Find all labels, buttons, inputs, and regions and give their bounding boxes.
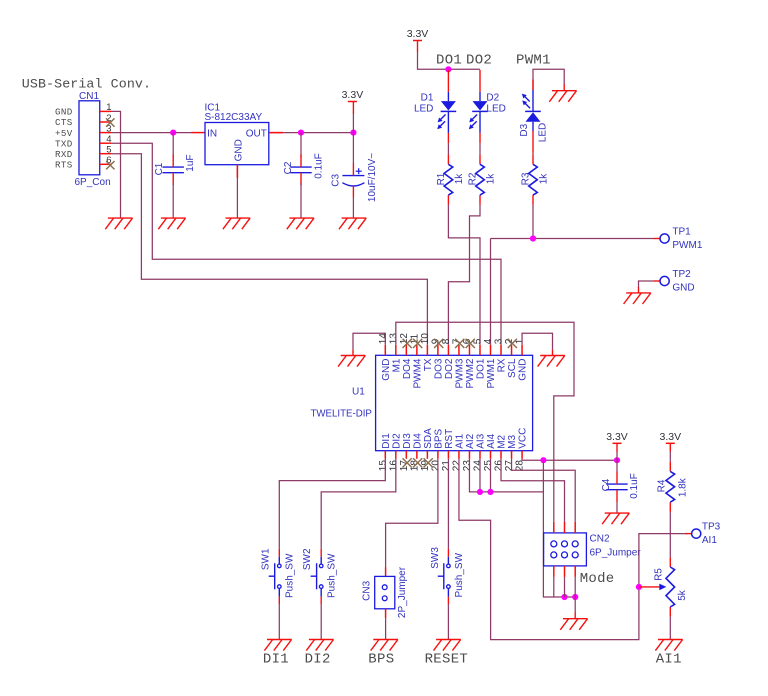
svg-text:10: 10 bbox=[420, 333, 431, 345]
svg-text:28: 28 bbox=[515, 460, 526, 472]
svg-text:D2: D2 bbox=[486, 93, 499, 104]
svg-text:3.3V: 3.3V bbox=[606, 431, 628, 443]
svg-text:16: 16 bbox=[388, 460, 399, 472]
svg-text:23: 23 bbox=[462, 460, 473, 472]
svg-text:1k: 1k bbox=[485, 173, 496, 185]
svg-text:TWELITE-DIP: TWELITE-DIP bbox=[311, 409, 372, 420]
svg-text:15: 15 bbox=[378, 460, 389, 472]
svg-text:GND: GND bbox=[672, 282, 694, 293]
svg-text:RXD: RXD bbox=[55, 149, 73, 160]
svg-text:R1: R1 bbox=[436, 172, 447, 185]
svg-text:D1: D1 bbox=[421, 93, 434, 104]
svg-text:LED: LED bbox=[414, 104, 433, 115]
svg-text:SW2: SW2 bbox=[302, 548, 313, 570]
svg-text:14: 14 bbox=[378, 333, 389, 345]
svg-text:C1: C1 bbox=[154, 162, 165, 175]
svg-text:M1: M1 bbox=[391, 358, 402, 372]
svg-text:C2: C2 bbox=[283, 161, 294, 174]
svg-text:DO1: DO1 bbox=[476, 358, 487, 379]
svg-text:DI3: DI3 bbox=[402, 433, 413, 449]
svg-text:0.1uF: 0.1uF bbox=[629, 473, 640, 499]
svg-text:CN2: CN2 bbox=[590, 533, 610, 544]
svg-text:AI4: AI4 bbox=[486, 433, 497, 448]
svg-text:Mode: Mode bbox=[580, 571, 615, 587]
svg-text:IN: IN bbox=[207, 129, 217, 140]
svg-text:R5: R5 bbox=[653, 568, 664, 581]
svg-text:DO2: DO2 bbox=[466, 53, 492, 69]
svg-text:AI3: AI3 bbox=[476, 433, 487, 448]
svg-text:SW1: SW1 bbox=[260, 548, 271, 570]
svg-text:D3: D3 bbox=[519, 123, 530, 136]
svg-text:5: 5 bbox=[106, 145, 111, 156]
svg-text:RESET: RESET bbox=[425, 651, 469, 667]
svg-text:DI2: DI2 bbox=[305, 651, 331, 667]
svg-text:DO2: DO2 bbox=[444, 358, 455, 379]
svg-text:DI1: DI1 bbox=[263, 651, 289, 667]
svg-text:R3: R3 bbox=[521, 172, 532, 185]
svg-text:AI2: AI2 bbox=[465, 433, 476, 448]
svg-text:LED: LED bbox=[486, 104, 505, 115]
svg-text:RST: RST bbox=[444, 429, 455, 449]
svg-text:10uF/10V~: 10uF/10V~ bbox=[367, 153, 378, 202]
svg-text:M3: M3 bbox=[507, 434, 518, 448]
svg-text:DI1: DI1 bbox=[381, 433, 392, 449]
svg-text:TP1: TP1 bbox=[672, 226, 691, 237]
svg-text:BPS: BPS bbox=[434, 428, 445, 448]
svg-text:S-812C33AY: S-812C33AY bbox=[205, 112, 263, 123]
svg-text:SCL: SCL bbox=[507, 358, 518, 378]
svg-text:RX: RX bbox=[497, 358, 508, 372]
svg-text:RTS: RTS bbox=[55, 160, 73, 171]
svg-text:DO1: DO1 bbox=[436, 53, 462, 69]
svg-text:USB-Serial Conv.: USB-Serial Conv. bbox=[22, 76, 151, 91]
svg-text:6P_Jumper: 6P_Jumper bbox=[590, 548, 642, 559]
svg-text:1k: 1k bbox=[454, 173, 465, 185]
svg-text:U1: U1 bbox=[352, 387, 365, 398]
svg-text:AI1: AI1 bbox=[656, 651, 682, 667]
svg-text:0.1uF: 0.1uF bbox=[313, 153, 324, 179]
svg-text:R2: R2 bbox=[468, 172, 479, 185]
svg-text:3.3V: 3.3V bbox=[342, 89, 364, 101]
svg-text:Push_SW: Push_SW bbox=[454, 552, 465, 597]
svg-text:21: 21 bbox=[441, 460, 452, 472]
svg-text:CN3: CN3 bbox=[362, 580, 373, 600]
svg-text:26: 26 bbox=[494, 460, 505, 472]
svg-text:PWM1: PWM1 bbox=[516, 53, 551, 69]
svg-text:DO4: DO4 bbox=[402, 358, 413, 379]
svg-text:DI2: DI2 bbox=[391, 433, 402, 449]
svg-text:GND: GND bbox=[234, 139, 245, 161]
svg-text:2P_Jumper: 2P_Jumper bbox=[397, 566, 408, 618]
svg-text:3.3V: 3.3V bbox=[659, 431, 681, 443]
svg-text:5k: 5k bbox=[677, 589, 688, 601]
svg-text:TP2: TP2 bbox=[672, 269, 691, 280]
svg-text:VCC: VCC bbox=[518, 428, 529, 449]
svg-text:M2: M2 bbox=[497, 434, 508, 448]
svg-text:DO3: DO3 bbox=[434, 358, 445, 379]
svg-text:Push_SW: Push_SW bbox=[284, 553, 295, 598]
svg-text:1: 1 bbox=[106, 102, 111, 113]
svg-text:27: 27 bbox=[504, 460, 515, 472]
svg-text:1.8k: 1.8k bbox=[677, 477, 688, 497]
svg-text:PWM4: PWM4 bbox=[412, 358, 423, 388]
svg-text:GND: GND bbox=[518, 359, 529, 381]
svg-text:AI1: AI1 bbox=[702, 535, 717, 546]
svg-text:TXD: TXD bbox=[55, 138, 73, 149]
svg-text:6P_Con: 6P_Con bbox=[75, 177, 111, 188]
svg-text:PWM3: PWM3 bbox=[455, 358, 466, 388]
svg-text:TP3: TP3 bbox=[702, 521, 721, 532]
svg-text:TX: TX bbox=[423, 358, 434, 371]
svg-text:AI1: AI1 bbox=[455, 433, 466, 448]
svg-text:PWM1: PWM1 bbox=[486, 358, 497, 388]
svg-text:3.3V: 3.3V bbox=[407, 28, 429, 40]
svg-text:22: 22 bbox=[452, 460, 463, 472]
svg-text:C4: C4 bbox=[601, 478, 612, 491]
svg-text:GND: GND bbox=[55, 107, 73, 118]
svg-text:OUT: OUT bbox=[246, 129, 267, 140]
svg-text:R4: R4 bbox=[657, 479, 668, 492]
svg-text:13: 13 bbox=[388, 333, 399, 345]
svg-text:LED: LED bbox=[537, 123, 548, 142]
svg-text:4: 4 bbox=[483, 338, 494, 344]
svg-text:SW3: SW3 bbox=[430, 547, 441, 569]
svg-text:CTS: CTS bbox=[55, 117, 73, 128]
svg-text:PWM1: PWM1 bbox=[672, 240, 702, 251]
svg-text:SDA: SDA bbox=[423, 428, 434, 449]
svg-text:4: 4 bbox=[106, 134, 111, 145]
svg-text:BPS: BPS bbox=[368, 651, 394, 667]
svg-text:DI4: DI4 bbox=[412, 433, 423, 449]
svg-text:PWM2: PWM2 bbox=[465, 358, 476, 388]
svg-text:20: 20 bbox=[431, 460, 442, 472]
svg-text:C3: C3 bbox=[331, 173, 342, 186]
svg-text:1uF: 1uF bbox=[185, 154, 196, 171]
svg-text:CN1: CN1 bbox=[79, 91, 99, 102]
svg-text:3: 3 bbox=[494, 338, 505, 344]
svg-text:1k: 1k bbox=[538, 173, 549, 185]
svg-text:Push_SW: Push_SW bbox=[326, 553, 337, 598]
svg-text:24: 24 bbox=[473, 460, 484, 472]
svg-text:GND: GND bbox=[381, 359, 392, 381]
svg-text:+5V: +5V bbox=[55, 128, 73, 139]
svg-text:25: 25 bbox=[483, 460, 494, 472]
